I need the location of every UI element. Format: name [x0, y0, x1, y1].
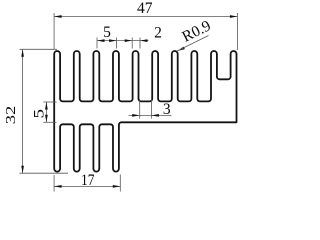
svg-text:3: 3	[163, 101, 171, 118]
dimension 3 (slot width) extension lines	[139, 99, 141, 119]
dimension 5 (fin pitch) arrows	[97, 39, 105, 42]
dimension 5 (web) arrows	[45, 102, 48, 110]
dimension 5 (fin pitch) line	[97, 40, 117, 42]
svg-text:47: 47	[137, 0, 153, 17]
heatsink profile outline	[54, 51, 236, 172]
dimension 17 arrows	[54, 185, 62, 188]
dimension 17 extension line right	[119, 175, 121, 192]
svg-text:5: 5	[32, 109, 48, 119]
dimension 47 extension line left	[53, 13, 55, 50]
dimension 32 extension line top	[20, 48, 58, 50]
dimension 5 (web) extension lines	[43, 101, 56, 103]
dimension 2 (fin width) extension lines	[131, 38, 133, 49]
dimension 47 line	[54, 16, 237, 18]
leader R0.9 arrow	[177, 47, 185, 51]
svg-text:32: 32	[3, 106, 18, 125]
dimension 47 extension line right	[236, 13, 238, 50]
svg-text:5: 5	[103, 24, 111, 41]
svg-text:17: 17	[81, 172, 95, 189]
dimension 32 extension line bottom	[20, 172, 69, 174]
dimension 17 line	[54, 185, 120, 187]
dimension 2 (fin width) line with tails	[117, 40, 149, 42]
dimension 17 extension line left	[53, 175, 55, 192]
dimension 32 line	[22, 49, 24, 173]
dimension 32 arrows	[21, 49, 24, 57]
dimension 3 (slot width) line with tails	[129, 114, 172, 116]
dimension 5 (web) line	[45, 102, 47, 122]
dimension 47 arrows	[54, 15, 62, 18]
dimension 3 (slot width) arrows	[132, 114, 140, 117]
leader R0.9 line	[177, 36, 208, 52]
dimension 2 (fin width) arrows	[125, 39, 133, 42]
svg-text:2: 2	[154, 25, 162, 42]
dimension 5 (fin pitch) extension lines	[96, 38, 98, 49]
